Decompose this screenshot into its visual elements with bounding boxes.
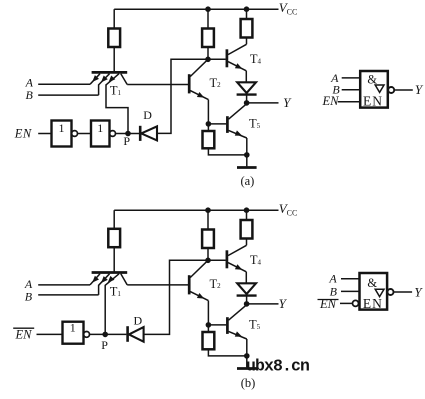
gate symbol box (sym-a) bbox=[360, 71, 388, 108]
transistor T2 base bar (b) bbox=[188, 275, 191, 294]
diode output cathode bar (b) bbox=[237, 294, 257, 296]
wire symbol input EN (sym-a) bbox=[338, 101, 361, 103]
resistor R2 (a) bbox=[202, 29, 214, 48]
resistor R3 (a) bbox=[241, 19, 253, 38]
transistor T2 collector (b) bbox=[190, 260, 208, 277]
transistor T1 base bar (a) bbox=[92, 71, 128, 74]
resistor R1 (b) bbox=[108, 229, 120, 247]
wire T2 emitter to T5 base node (a) bbox=[207, 100, 209, 124]
junction dot rail-R2 (b) bbox=[205, 207, 211, 213]
wire T1 emitter3 to node P (b) bbox=[104, 285, 106, 335]
wire T4 emitter to diode (b) bbox=[245, 272, 247, 284]
label symbol Y (sym-b) bbox=[414, 284, 423, 299]
label A (b) bbox=[24, 277, 33, 291]
label Y (a) bbox=[283, 95, 292, 110]
wire T5 emitter to ground node (b) bbox=[246, 339, 248, 356]
wire T4 emitter to diode (a) bbox=[245, 71, 247, 83]
transistor T5 emitter (a) bbox=[229, 130, 247, 138]
inverter gate 1 bubble (a) bbox=[72, 131, 78, 137]
wire diode D to T2 collector node (b) bbox=[144, 260, 226, 334]
transistor T4 base bar (b) bbox=[226, 250, 229, 268]
node P dot (b) bbox=[102, 332, 108, 338]
wire symbol output Y (sym-b) bbox=[394, 291, 413, 293]
label 1 in gate (b) bbox=[70, 321, 76, 335]
svg-text:B: B bbox=[25, 290, 33, 304]
wire gate1 to gate2 (a) bbox=[78, 133, 92, 135]
wire input B (a) bbox=[38, 94, 98, 96]
wire T5 emitter to ground node (a) bbox=[246, 138, 248, 155]
transistor T1 emitter 1 (a) bbox=[90, 74, 100, 85]
junction dot rail-R3 (a) bbox=[244, 6, 250, 12]
label T4 (a) bbox=[250, 52, 262, 66]
symbol EN input bubble (sym-b) bbox=[353, 300, 359, 306]
transistor T5 base bar (b) bbox=[226, 317, 229, 334]
wire output Y (b) bbox=[247, 303, 279, 305]
wire output Y (a) bbox=[247, 102, 279, 104]
wire R4 bottom to ground node (b) bbox=[208, 349, 246, 356]
wire T2 emitter to T5 base node (b) bbox=[207, 301, 209, 325]
wire EN input (b) bbox=[37, 333, 63, 335]
wire diode to output node (b) bbox=[246, 296, 248, 304]
junction dot T2 collector node (a) bbox=[205, 57, 211, 63]
wire T5 base (b) bbox=[208, 324, 226, 326]
diode D cathode bar (b) bbox=[126, 326, 129, 342]
resistor R4 (b) bbox=[203, 332, 215, 349]
gate symbol ampersand (sym-b) bbox=[367, 276, 377, 290]
wire T1 collector to T2 base (a) bbox=[127, 84, 188, 86]
diode output triangle (a) bbox=[237, 82, 256, 93]
label T2 (b) bbox=[210, 277, 222, 291]
wire T5 base (a) bbox=[208, 123, 226, 125]
svg-text:EN: EN bbox=[14, 127, 32, 141]
label T1 (b) bbox=[110, 284, 122, 298]
label Y (b) bbox=[279, 296, 288, 311]
label (a) bbox=[240, 174, 254, 188]
svg-text:1: 1 bbox=[97, 121, 103, 135]
svg-text:A: A bbox=[328, 271, 337, 285]
transistor T1 emitter 2 (a) bbox=[99, 74, 110, 95]
wire T1 emitter3 to node P (a) bbox=[106, 84, 128, 133]
inverter gate 1 box (a) bbox=[52, 121, 72, 147]
resistor R4 (a) bbox=[203, 131, 215, 148]
svg-text:P: P bbox=[101, 338, 108, 352]
svg-text:P: P bbox=[123, 134, 130, 148]
junction dot output node (b) bbox=[244, 301, 250, 307]
wire input A (a) bbox=[38, 83, 90, 85]
svg-text:EN: EN bbox=[363, 296, 383, 311]
junction dot rail-R2 (a) bbox=[205, 6, 211, 12]
inverter gate 2 box (a) bbox=[91, 121, 110, 147]
transistor T1 base bar (b) bbox=[92, 271, 128, 274]
gate symbol tristate triangle (sym-a) bbox=[375, 85, 384, 92]
wire symbol input B (sym-a) bbox=[342, 89, 361, 91]
label 1 in gate 1 (a) bbox=[59, 121, 65, 135]
wire symbol input B (sym-b) bbox=[341, 290, 360, 292]
label symbol B (sym-b) bbox=[330, 284, 338, 298]
wire symbol output Y (sym-a) bbox=[394, 89, 413, 91]
junction dot T5 base node (a) bbox=[206, 121, 212, 127]
ground (b) bbox=[237, 356, 257, 369]
transistor T5 collector (a) bbox=[229, 104, 247, 119]
wire Vcc rail (b) bbox=[114, 209, 278, 211]
transistor T1 emitter 2 (b) bbox=[99, 274, 110, 295]
diode output cathode bar (a) bbox=[237, 93, 257, 95]
wire R4 bottom to ground node (a) bbox=[208, 148, 246, 155]
label (b) bbox=[241, 376, 256, 390]
transistor T1 collector (a) bbox=[121, 74, 127, 85]
inverter gate box (b) bbox=[63, 322, 84, 344]
svg-text:ubx8.cn: ubx8.cn bbox=[246, 357, 309, 376]
diode D cathode bar (a) bbox=[139, 126, 142, 141]
label symbol EN (sym-a) bbox=[322, 94, 340, 108]
transistor T2 collector (a) bbox=[190, 59, 208, 76]
label A (a) bbox=[25, 76, 34, 90]
label T4 (b) bbox=[250, 253, 262, 267]
junction dot T2 collector node (b) bbox=[205, 258, 211, 264]
transistor T4 collector (a) bbox=[228, 44, 247, 54]
label symbol EN-bar (sym-b) bbox=[318, 297, 339, 311]
transistor T4 base bar (a) bbox=[226, 49, 229, 67]
wire gate2 to diode D (a) bbox=[116, 133, 140, 135]
wire diode D to T2 collector node (a) bbox=[157, 59, 226, 133]
inverter gate 2 bubble (a) bbox=[110, 131, 116, 137]
svg-text:1: 1 bbox=[70, 321, 76, 335]
transistor T1 emitter 1 (b) bbox=[90, 274, 100, 285]
label Vcc (a) bbox=[279, 0, 298, 16]
diode D triangle (b) bbox=[129, 327, 144, 342]
wire R3 top lead (b) bbox=[246, 210, 248, 220]
wire symbol input A (sym-b) bbox=[341, 278, 360, 280]
wire symbol input EN (sym-b) bbox=[340, 302, 352, 304]
node P dot (a) bbox=[125, 131, 131, 137]
label symbol B (sym-a) bbox=[332, 83, 340, 97]
svg-text:D: D bbox=[133, 313, 142, 327]
label T1 (a) bbox=[110, 84, 122, 98]
label EN (a) bbox=[14, 127, 32, 141]
label symbol A (sym-a) bbox=[330, 71, 339, 85]
gate symbol ampersand (sym-a) bbox=[367, 72, 377, 86]
label T5 (a) bbox=[249, 117, 261, 131]
svg-text:EN: EN bbox=[322, 94, 340, 108]
gate symbol EN text (sym-a) bbox=[363, 94, 383, 109]
wire R4 top lead (b) bbox=[207, 325, 209, 332]
svg-text:EN: EN bbox=[363, 94, 383, 109]
transistor T1 emitter 3 (b) bbox=[105, 274, 119, 286]
transistor T2 emitter (b) bbox=[190, 292, 208, 301]
transistor T1 collector (b) bbox=[121, 274, 127, 285]
junction dot ground node (b) bbox=[244, 353, 250, 359]
wire input B (b) bbox=[38, 294, 98, 296]
transistor T2 emitter (a) bbox=[190, 91, 208, 100]
wire Vcc rail (a) bbox=[114, 8, 278, 10]
label T5 (b) bbox=[249, 318, 261, 332]
label B (a) bbox=[26, 88, 34, 102]
transistor T5 base bar (a) bbox=[226, 116, 229, 133]
label P (b) bbox=[101, 338, 108, 352]
transistor T4 collector (b) bbox=[228, 245, 247, 255]
svg-text:D: D bbox=[143, 108, 152, 122]
label symbol A (sym-b) bbox=[328, 271, 337, 285]
resistor R1 (a) bbox=[108, 29, 120, 48]
junction dot T5 base node (b) bbox=[206, 322, 212, 328]
label 1 in gate 2 (a) bbox=[97, 121, 103, 135]
wire EN input (a) bbox=[38, 133, 51, 135]
svg-text:&: & bbox=[367, 276, 377, 290]
wire diode to output node (a) bbox=[246, 95, 248, 103]
watermark ubx8.cn bbox=[246, 357, 309, 376]
wire input A (b) bbox=[38, 284, 90, 286]
transistor T4 emitter (a) bbox=[228, 62, 246, 71]
gate symbol tristate triangle (sym-b) bbox=[375, 289, 384, 296]
transistor T4 emitter (b) bbox=[228, 263, 246, 272]
junction dot ground node (a) bbox=[244, 152, 250, 158]
label D (b) bbox=[133, 313, 142, 327]
label B (b) bbox=[25, 290, 33, 304]
wire R3 bottom lead (a) bbox=[246, 38, 248, 45]
junction dot rail-R3 (b) bbox=[244, 207, 250, 213]
svg-text:EN: EN bbox=[15, 327, 33, 341]
label EN-bar (b) bbox=[13, 327, 34, 341]
label D (a) bbox=[143, 108, 152, 122]
resistor R2 (b) bbox=[202, 230, 214, 249]
wire R3 top lead (a) bbox=[246, 9, 248, 19]
svg-text:1: 1 bbox=[59, 121, 65, 135]
label T2 (a) bbox=[210, 76, 222, 90]
wire T1 collector to T2 base (b) bbox=[127, 284, 188, 286]
wire R2 bottom lead (b) bbox=[207, 248, 209, 260]
symbol output bubble (sym-a) bbox=[388, 87, 394, 93]
svg-text:(a): (a) bbox=[240, 174, 254, 188]
transistor T5 emitter (b) bbox=[229, 331, 247, 339]
wire R1 top lead (b) bbox=[113, 210, 115, 229]
transistor T5 collector (b) bbox=[229, 305, 247, 320]
resistor R3 (b) bbox=[241, 220, 253, 239]
ground (a) bbox=[237, 155, 257, 168]
gate symbol EN text (sym-b) bbox=[363, 296, 383, 311]
diode output triangle (b) bbox=[237, 283, 256, 294]
label symbol Y (sym-a) bbox=[415, 82, 424, 97]
label P (a) bbox=[123, 134, 130, 148]
wire R1 bottom lead (a) bbox=[113, 47, 115, 71]
gate symbol box (sym-b) bbox=[360, 273, 388, 310]
svg-text:B: B bbox=[26, 88, 34, 102]
svg-text:(b): (b) bbox=[241, 376, 256, 390]
diode D triangle (a) bbox=[141, 126, 157, 140]
transistor T1 emitter 3 (a) bbox=[106, 74, 119, 85]
wire R4 top lead (a) bbox=[207, 124, 209, 131]
label Vcc (b) bbox=[279, 201, 298, 218]
wire R3 bottom lead (b) bbox=[246, 239, 248, 246]
wire R1 bottom lead (b) bbox=[113, 247, 115, 272]
symbol output bubble (sym-b) bbox=[388, 289, 394, 295]
junction dot output node (a) bbox=[244, 100, 250, 106]
wire R2 top lead (b) bbox=[207, 210, 209, 229]
wire R2 bottom lead (a) bbox=[207, 47, 209, 59]
wire R1 top lead (a) bbox=[113, 9, 115, 28]
wire gate to diode D (b) bbox=[90, 333, 127, 335]
transistor T2 base bar (a) bbox=[188, 74, 191, 93]
inverter gate bubble (b) bbox=[84, 332, 90, 338]
wire R2 top lead (a) bbox=[207, 9, 209, 28]
wire symbol input A (sym-a) bbox=[342, 77, 361, 79]
